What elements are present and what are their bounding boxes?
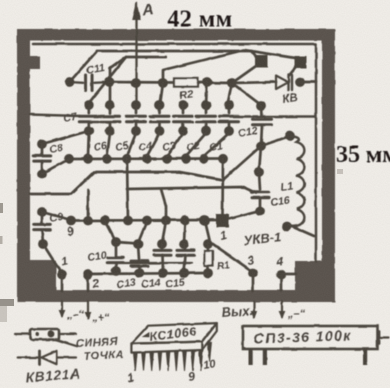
node C15 bottom [179,268,189,278]
wire anode node to C1 top [228,83,233,104]
diode body small dot [36,332,40,336]
node C16 bottom [255,206,265,216]
node R1 bottom [203,268,213,278]
wire C8 bottom to row-159 [42,159,69,174]
capacitor C11 [70,81,84,84]
row-159 pads [64,154,74,164]
wire cathode to shield [300,81,316,84]
wire stub H2 down to row-220 [161,189,166,220]
node C8 bottom [37,169,47,179]
wire C11 right pad down to C6 top [109,82,112,105]
potentiometer SP3-36 body [243,326,378,349]
capacitor row bottom pads [84,126,94,136]
wire R2 right lead [198,81,232,84]
wire mid trace H2 [127,187,256,193]
wire C11 right pad riser [110,58,124,82]
diode KB [276,76,289,90]
capacitor row top pads [84,100,94,110]
wire diagonal square region to pin 3 [205,221,253,272]
wire stub 147 to C13 [138,221,147,243]
capacitor C2 [197,115,216,118]
node mid right [254,167,264,177]
board outer frame left border [17,29,30,302]
node C10 bottom [111,266,121,276]
antenna arrow head [132,2,141,20]
board outer frame top border [17,29,335,41]
node C11 right [105,77,115,87]
output arrow [253,301,255,317]
wire C16 bottom to square pad [229,211,260,219]
IC pin 10 [208,342,212,361]
resistor R2 [174,78,198,86]
capacitor C8 [34,154,51,157]
IC front pins [134,353,138,371]
node C14 bottom [158,268,168,278]
node C13 top [133,239,143,249]
wire C12 bottom to node 259-172 [259,146,261,172]
capacitor row bottom stems [87,124,90,131]
capacitor C7 [79,115,98,118]
capacitor C13 [138,244,139,259]
wire C16 bottom stem [259,198,262,211]
wire node 207 to C2 top [206,82,207,105]
wire L1 bottom to shield [289,225,314,236]
IC pin-1 marker [142,332,150,337]
capacitor C5 [127,115,146,118]
wire left border to C7 top plate [30,115,80,117]
wire square A to anode node [232,66,256,83]
wire riser from node at 163 to square pad B [163,50,295,83]
wire stub 166 to C14 [162,221,166,243]
capacitor C3 [174,115,193,118]
potentiometer leg 2 [263,349,267,365]
wire node to C16 top [259,172,260,190]
wire diode anode lead [232,82,276,83]
inductor L1 [288,136,305,227]
diode body blue dot [48,331,55,338]
wire anode node to C12 top [232,83,261,105]
node C10 top [111,237,121,247]
node L1 bottom [282,222,292,232]
capacitor C16 [252,191,269,194]
node C9 bottom [38,239,48,249]
capacitor C12 [253,118,272,121]
wire C9 bottom to pin 1 [43,244,62,274]
node L1 top [285,131,295,141]
wire top bus to square pad A [97,51,257,58]
wire square B to diode bar [290,67,297,75]
potentiometer shaft [378,332,381,344]
node left of square pad [200,216,210,226]
wire C12 top stem [260,106,263,116]
node C9 top [37,207,47,217]
wire second top bus [126,56,166,59]
resistor R1 [207,243,210,252]
capacitor C9 [34,223,51,226]
square pad B [294,56,307,69]
wire stub 105 to C10 top [105,221,116,242]
wire C10 bottom plate trace [123,262,192,264]
node R2 right [202,77,212,87]
scan smudge left edge [0,203,3,213]
wire stub 185 to C15 [184,221,185,243]
inner shield outline right [315,44,318,262]
square pad A [255,55,268,68]
wire C8 stems [41,144,44,156]
scan smudge right of board [337,169,343,174]
pin 2 pad [83,270,93,280]
capacitor C6 [101,115,120,118]
wire mid trace H1 [30,172,223,194]
wire stub 88 up [87,190,90,220]
diode body left lead [16,333,31,335]
capacitor C14 [161,244,164,248]
pin 3 pad [248,268,258,278]
wire node 163 to C4 top [160,83,163,105]
wire C7 top to second top bus [88,57,126,104]
wire row-83 bus left part [110,81,175,84]
node C14 top [157,239,167,249]
pin 1 pad [57,270,67,280]
row-220 pads [66,216,76,226]
node diode cathode [295,77,305,87]
wire row-220 bus [71,219,217,222]
wire C9 top to row-220 [42,212,71,220]
diode KV121A body top view [30,329,59,340]
pointer line to blue dot text [56,340,77,347]
minus arrow at pin 4 [281,301,283,317]
capacitor C15 [184,244,185,248]
wire pin 4 to corner block [281,273,296,276]
capacitor row top stems [87,105,90,113]
minus arrow at pin 1 [61,301,63,316]
potentiometer leg 3 [363,349,367,365]
board outer frame right border [322,29,335,302]
wire bottom bus [88,273,208,274]
wire C12 bottom to L1 top [261,136,290,146]
wire row-159 bus [69,157,223,160]
left border mounting tab [30,56,40,69]
node C15 top [179,239,189,249]
node C8 top [37,139,47,149]
node junction 163 [158,78,168,88]
node R1 top [203,239,213,249]
wire C12 bottom stem [261,125,262,146]
node diode anode junction [227,78,237,88]
wire C12 top plate to shield [239,115,316,117]
diode KV121A symbol [18,356,39,358]
wire vertical row-159 to square pad 1 [221,159,224,214]
antenna lead wire [135,3,137,105]
plus arrow at pin 2 [87,301,89,318]
IC KS1066 package [131,323,216,353]
scan smudge bottom left [0,299,14,306]
bottom-right corner copper block [295,261,335,295]
board outer frame bottom border [17,290,335,302]
node C12 bottom [256,141,266,151]
capacitor C10 [115,242,118,256]
wire C8 top to C7 bottom [42,131,89,144]
wire C11 left pad to top bus [70,51,98,82]
wire row-159 end to C12 bottom diagonal [224,146,261,179]
square pad 1 [216,214,229,227]
wire C9 stems [41,212,44,224]
node C11 left [65,77,75,87]
wire C10 top link [116,242,138,244]
node antenna junction [131,78,141,88]
capacitor C4 [150,115,169,118]
wire long vertical x127 [127,159,128,221]
pin 4 pad [276,270,286,280]
inner shield outline top [33,43,316,46]
bottom-left corner copper block [17,260,56,295]
capacitor C1 [220,115,239,118]
fan stubs cap row to row-159 [87,133,91,156]
diode body right lead [59,333,76,335]
potentiometer leg 1 [249,349,253,365]
node C12 top [256,101,266,111]
node C13 bottom [135,268,145,278]
